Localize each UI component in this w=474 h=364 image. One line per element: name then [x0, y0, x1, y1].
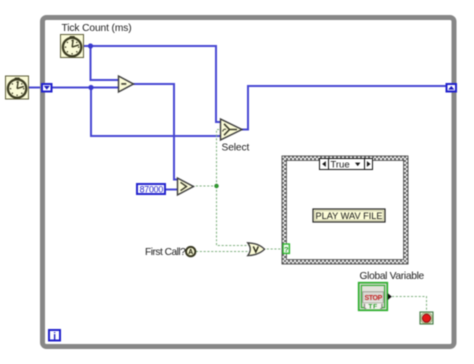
svg-text:First Call?: First Call? [145, 247, 186, 258]
wire: branch down to subtract upper input [91, 46, 120, 80]
wire: top rail down to select top input [216, 45, 221, 122]
svg-text:?: ? [284, 245, 289, 254]
label: Select [222, 143, 250, 154]
tick count (ms) function inner [61, 35, 84, 58]
label: Global Variable [360, 271, 425, 282]
case selector tunnel ? [283, 244, 289, 254]
wire: main tick-count shift wire (outer clock to subtract lower input) [27, 87, 119, 89]
wire: select output to right shift register [241, 86, 446, 130]
wire: global variable to loop condition terminal [392, 297, 427, 314]
or function [248, 243, 265, 256]
svg-text:Tick Count (ms): Tick Count (ms) [62, 23, 132, 34]
junction: green boolean dot [215, 184, 219, 188]
junction: blue dot on main wire [88, 85, 93, 90]
label: First Call? [145, 247, 186, 258]
wire: junction down to select bottom input [91, 88, 221, 137]
subVI PLAY WAV FILE [313, 209, 385, 222]
while loop border [43, 18, 455, 347]
svg-text:i: i [53, 331, 56, 342]
wire: greater output boolean to green junction [192, 185, 217, 187]
left shift register [42, 84, 52, 92]
wire: 87000 constant to greater bottom input [165, 189, 178, 191]
svg-text:Select: Select [222, 143, 250, 154]
numeric constant 87000 [137, 184, 165, 195]
wire: first call output to or gate bottom input [196, 251, 250, 253]
case structure border [282, 156, 408, 264]
svg-text:True: True [330, 159, 349, 170]
subtract function [119, 76, 134, 92]
svg-text:87000: 87000 [140, 185, 164, 195]
select function [221, 119, 243, 140]
svg-text:TF: TF [368, 304, 378, 311]
wire: subtract output to greater top input [132, 84, 178, 180]
wire: inner tick count output to top rail [83, 45, 216, 47]
label: Tick Count (ms) [62, 23, 132, 34]
global variable STOP node [359, 283, 392, 311]
junction: blue dot on tick output [88, 43, 93, 48]
svg-text:STOP: STOP [365, 295, 383, 302]
svg-text:Global Variable: Global Variable [360, 271, 425, 282]
wire: or gate output to case selector tunnel [263, 248, 284, 250]
loop condition terminal [420, 312, 433, 324]
first call? node [186, 247, 195, 256]
iteration terminal i [49, 330, 60, 342]
wire: boolean down to or gate top input [217, 186, 251, 246]
tick count function outer [6, 76, 29, 99]
wire: boolean up to select s input [217, 130, 223, 187]
svg-text:PLAY WAV FILE: PLAY WAV FILE [315, 211, 382, 221]
right shift register [447, 84, 457, 92]
case selector label True [320, 159, 373, 171]
greater? function [178, 178, 194, 195]
